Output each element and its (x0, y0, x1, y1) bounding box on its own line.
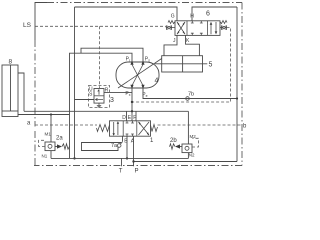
valve 1 left spring (97, 125, 110, 132)
svg-text:e: e (146, 94, 148, 98)
directional valve 6 (4-position, top right) (175, 11, 220, 36)
valve 6 left spring (168, 21, 175, 24)
wire: M1 branch to valve 2a (50, 115, 52, 143)
test point 7a (111, 143, 121, 149)
wire: valve 3 R port to E line (104, 91, 132, 93)
svg-text:3: 3 (110, 97, 114, 104)
wire: left riser to pump port Pr (70, 53, 133, 114)
svg-text:5: 5 (209, 62, 213, 69)
svg-text:J: J (173, 38, 176, 44)
pump swashplate diagonal (118, 59, 162, 89)
valve 6 blocked-port marks in cell 2 (191, 21, 194, 23)
valve 6 left pilot element (167, 26, 176, 30)
accumulator / control unit 8 (2, 59, 18, 117)
wire: B port to tank pipe (126, 136, 128, 158)
pressure pipe (bottom run) (134, 161, 238, 163)
wire: riser continuation down to tank pipe (69, 115, 71, 159)
svg-text:B: B (124, 139, 128, 145)
node: M1 branch junction (50, 113, 52, 115)
wire: M2 branch from supply pipe to valve 2b (187, 111, 189, 144)
wire: pump Pe line down and right to tank loop (143, 87, 237, 99)
valve 1 centre cell blocked ports (126, 121, 129, 123)
valve 6 arrows in cell 3 (210, 24, 212, 34)
relief valve 2a (39, 136, 70, 151)
svg-text:1: 1 (150, 138, 154, 144)
main directional valve 1 (3-position) (110, 121, 151, 136)
pressure reducing valve 3 (89, 86, 110, 108)
wire: K line from valve 6 to servo cylinder 5 (186, 35, 200, 55)
svg-text:7b: 7b (188, 92, 194, 98)
valve 1 left cell parallel arrows (113, 122, 115, 135)
svg-text:8: 8 (9, 59, 13, 66)
tank loop pipe (top-right run from valve 6 port H) (192, 7, 237, 21)
node: A-P junction on pressure pipe (132, 160, 134, 162)
svg-text:M1: M1 (45, 132, 52, 137)
LS pilot drop to valve 3 (dashed vertical) (99, 26, 101, 88)
svg-text:x: x (129, 93, 131, 97)
svg-text:P: P (135, 169, 139, 175)
wire: B port drain loop with test point 7a (122, 136, 124, 141)
valve 1 right cell crossed arrows (139, 122, 150, 135)
svg-text:T: T (119, 169, 123, 175)
tank loop pipe (top run to valve 6 port G) (75, 7, 178, 21)
variable displacement pump 4 (116, 59, 162, 90)
valve 1 right spring (151, 125, 158, 132)
node: E line junction with pilot line (131, 101, 133, 103)
test point 7b (186, 92, 194, 101)
pilot line from valve 6 right end (dashed, down to E line) (132, 28, 231, 102)
tank loop pipe (right vertical) (236, 7, 238, 162)
wire: D stub (126, 111, 128, 121)
wire: upper pipe to pump port Ps (81, 48, 143, 63)
svg-text:s: s (148, 59, 150, 63)
svg-text:a: a (27, 121, 31, 127)
svg-text:D: D (122, 115, 126, 121)
svg-text:M2: M2 (190, 134, 197, 139)
node: Pe line junction at tank loop (236, 97, 238, 99)
LS pilot line (dashed) (35, 25, 166, 27)
pump crossed flow arrows (132, 65, 143, 86)
wire: A port / P line vertical (133, 136, 135, 166)
svg-text:LS: LS (23, 22, 32, 29)
wire: N1 drain from valve 2a (50, 151, 52, 159)
servo cylinder 5 (155, 56, 207, 72)
svg-text:E: E (128, 115, 132, 121)
tank loop pipe (left vertical) (74, 7, 76, 158)
wire: F stub (135, 111, 137, 121)
svg-text:6: 6 (206, 11, 210, 18)
svg-text:2a: 2a (56, 136, 63, 142)
node: E line junction with supply pipe (131, 110, 133, 112)
wire: pump Px / valve E line (vertical) (131, 87, 133, 121)
node: tank loop junction (73, 157, 75, 159)
valve 6 crossed arrows in cell 1 (177, 22, 185, 34)
svg-text:A: A (131, 139, 135, 145)
svg-text:b: b (243, 124, 247, 130)
wire: supply pipe y=111 from unit 8 to M2 branch (24, 110, 188, 112)
svg-text:N2: N2 (189, 153, 195, 158)
svg-text:2b: 2b (170, 138, 177, 144)
svg-text:H: H (190, 14, 194, 20)
valve 6 right spring (220, 21, 227, 24)
svg-text:7a: 7a (111, 143, 118, 149)
svg-text:G: G (171, 14, 175, 20)
valve 6 right pilot element (220, 26, 227, 30)
wire: J line from valve 6 to servo cylinder 5 (164, 35, 177, 55)
pipe from unit 8 (step to Pr supply) (18, 73, 24, 111)
wire: N2 drain from valve 2b (187, 153, 189, 159)
tank pipe T (51, 157, 188, 159)
enclosure (manifold block boundary, dash-dot) (34, 3, 242, 166)
wire: T port stub (121, 158, 123, 166)
valve 3 drain with tank symbol (97, 103, 101, 108)
svg-text:K: K (186, 38, 190, 44)
wire: valve 3 left port to tank loop (75, 99, 95, 101)
svg-text:N1: N1 (42, 154, 48, 159)
pilot line b (dashed) (158, 124, 243, 126)
pilot line a (dashed) (35, 124, 97, 126)
relief valve 2b (170, 138, 199, 153)
node: B-T junction on tank pipe (126, 157, 128, 159)
svg-text:4: 4 (155, 78, 159, 85)
